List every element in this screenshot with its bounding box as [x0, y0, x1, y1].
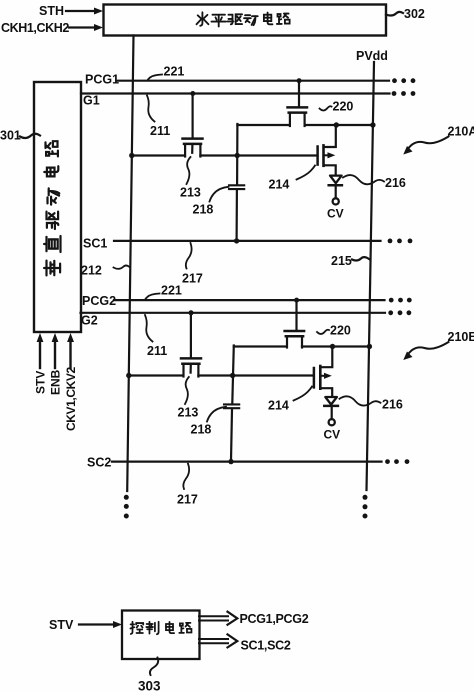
svg-text:215: 215 [331, 254, 352, 268]
label 垂直驱动电路 in box 301 (rotated) [44, 141, 60, 275]
svg-text:220: 220 [330, 324, 351, 338]
wire from T220 source down through node to capacitor C218 (cell 1) [236, 124, 238, 184]
diode 216 light emitting element (cell 2) [324, 397, 338, 419]
wire data line 212 vertical from box 302 [127, 36, 133, 492]
node STV label (bottom) [49, 618, 74, 632]
wire ENB arrow into box 301 [52, 333, 59, 368]
label 301 with leader [0, 129, 40, 143]
svg-text:STV: STV [49, 618, 74, 632]
label 215 with leader to PVdd line [331, 254, 369, 268]
svg-text:SC2: SC2 [87, 456, 111, 470]
svg-text:213: 213 [178, 406, 199, 420]
svg-text:303: 303 [138, 679, 161, 692]
label 216 with leader to diode (cell 2) [340, 396, 403, 411]
node CKV1,CKV2 label (rotated) [64, 367, 78, 431]
svg-text:CV: CV [324, 428, 341, 442]
node CV label (cell 1) [327, 207, 344, 221]
node CKH1,CKH2 input label [1, 21, 69, 35]
svg-text:SC1,SC2: SC1,SC2 [241, 639, 291, 653]
svg-text:PCG1,PCG2: PCG1,PCG2 [240, 612, 309, 626]
block 302 horizontal drive circuit box [104, 5, 387, 36]
svg-text:214: 214 [269, 178, 290, 192]
label 303 with leader [138, 658, 161, 692]
wire bus arrow SC1,SC2 out of control box [199, 634, 237, 647]
wire bus arrow PCG1,PCG2 out of control box [199, 612, 237, 625]
node junction dot drain T214 on PVdd feed 2 [330, 344, 335, 349]
transistor 220 (cell 1) [288, 82, 308, 127]
svg-text:217: 217 [177, 493, 198, 507]
node CV label (cell 2) [324, 428, 341, 442]
svg-text:218: 218 [191, 423, 212, 437]
node CV terminal circle (cell 2) [329, 419, 335, 425]
wire STV arrow into control box [79, 621, 122, 628]
svg-text:STH: STH [39, 4, 64, 18]
node SC1 label [83, 237, 107, 251]
wire CKH1,CKH2 arrow into horizontal driver [69, 24, 103, 31]
node PCG1,PCG2 label [240, 612, 309, 626]
node junction dot drain T214 on PVdd feed 1 [334, 122, 339, 127]
node STV label (rotated) [34, 371, 48, 394]
transistor 214 (cell 2) [314, 348, 332, 397]
label 211 with leader to G1 (cell 1) [147, 96, 170, 139]
svg-text:212: 212 [81, 264, 102, 278]
node junction dot gate of Q213 on G1 [190, 91, 195, 96]
label 214 with leader to gate (cell 1) [269, 166, 316, 192]
svg-text:218: 218 [193, 203, 214, 217]
label 217 with leader to SC2 (cell 2) [177, 464, 198, 507]
label 214 with leader to gate (cell 2) [268, 387, 312, 413]
transistor 220 (cell 2) [285, 301, 305, 348]
label 221 with leader to PCG1 (cell 1) [148, 65, 185, 81]
block 301 vertical drive circuit box [34, 82, 81, 332]
wire PVdd power line 215 [367, 62, 375, 490]
node G2 label [81, 314, 98, 328]
wire PVdd feed row 1 [237, 124, 373, 126]
node junction dot data line / storage wire 1 [129, 153, 134, 158]
svg-text:214: 214 [268, 399, 289, 413]
svg-text:211: 211 [147, 344, 167, 358]
label 213 with leader (cell 2) [178, 365, 199, 420]
node junction dot storage wire / capacitor branch 1 [235, 153, 240, 158]
label 211 with leader to G2 (cell 2) [145, 315, 167, 358]
svg-text:220: 220 [333, 100, 354, 114]
node SC2 label [87, 456, 111, 470]
wire storage node row 2 [129, 374, 314, 376]
node junction dot PVdd feed 1 on PVdd line [370, 122, 375, 127]
node G1 label [83, 94, 100, 108]
wire STV arrow into box 301 [37, 333, 44, 368]
transistor 213 (cell 1) [183, 95, 203, 157]
node junction dot storage wire / capacitor branch 2 [230, 373, 235, 378]
svg-text:301: 301 [0, 129, 21, 143]
node ellipsis PCG1 [392, 78, 415, 83]
label 213 with leader (cell 1) [180, 145, 201, 200]
wire storage node row 1 [132, 154, 318, 156]
node junction dot gate of T220 on PCG1 [297, 78, 302, 83]
label 218 with leader to C218 (cell 2) [191, 407, 227, 437]
node ENB label (rotated) [49, 369, 63, 395]
svg-text:ENB: ENB [49, 369, 63, 395]
svg-text:PCG1: PCG1 [85, 73, 119, 87]
svg-text:213: 213 [180, 186, 201, 200]
wire PCG2 row line [114, 299, 385, 301]
node PCG2 label [82, 294, 116, 308]
node ellipsis below data line [124, 495, 129, 519]
svg-text:CV: CV [327, 207, 344, 221]
wire CKV1,CKV2 arrow into box 301 [67, 333, 74, 368]
node PVdd label [356, 49, 388, 63]
label 302 with leader [386, 7, 425, 21]
svg-text:CKV1,CKV2: CKV1,CKV2 [64, 367, 78, 431]
node junction dot C218 on SC2 [228, 459, 233, 464]
label 控制电路 in box 303 [130, 622, 191, 634]
wire G1 row line [81, 92, 390, 94]
label 220 with leader (cell 1) [320, 100, 354, 114]
node ellipsis SC1 [388, 239, 413, 244]
svg-text:PVdd: PVdd [356, 49, 388, 63]
label 218 with leader to C218 (cell 1) [193, 187, 229, 217]
wire SC2 row line [112, 461, 382, 463]
node junction dot PVdd feed 2 on PVdd line [367, 344, 372, 349]
svg-text:G2: G2 [81, 314, 98, 328]
node PCG1 label [85, 73, 119, 87]
svg-text:216: 216 [385, 176, 406, 190]
node ellipsis PCG2 [389, 298, 412, 303]
svg-text:211: 211 [150, 124, 170, 138]
capacitor C218 (cell 1) [229, 185, 244, 240]
node STH input label [39, 4, 64, 18]
node CV terminal circle (cell 1) [333, 198, 339, 204]
svg-text:G1: G1 [83, 94, 100, 108]
node junction dot gate of Q213 on G2 [189, 310, 194, 315]
node SC1,SC2 label [241, 639, 291, 653]
svg-text:302: 302 [404, 7, 425, 21]
wire SC1 row line [114, 240, 381, 242]
transistor 214 (cell 1) [318, 126, 336, 175]
svg-text:210B: 210B [448, 330, 474, 344]
diode 216 light emitting element (cell 1) [329, 176, 342, 199]
label 水平驱动电路 in box 302 [197, 12, 290, 26]
label 210A with curved arrow [403, 125, 474, 155]
label 217 with leader to SC1 (cell 1) [182, 243, 203, 286]
node junction dot gate of T220 on PCG2 [294, 298, 299, 303]
node ellipsis below PVdd line [363, 495, 368, 519]
label 220 with leader (cell 2) [317, 324, 351, 338]
label 221 with leader to PCG2 (cell 2) [145, 284, 182, 300]
node junction dot data line / storage wire 2 [126, 373, 131, 378]
svg-text:216: 216 [382, 398, 403, 412]
svg-text:STV: STV [34, 371, 48, 394]
svg-text:210A: 210A [448, 125, 474, 139]
label 212 with leader to data line [81, 264, 130, 278]
svg-text:217: 217 [182, 272, 203, 286]
block 303 control circuit box [122, 611, 200, 660]
node ellipsis G2 [388, 310, 411, 315]
label 210B with curved arrow [403, 330, 474, 360]
wire G2 row line [81, 312, 386, 314]
svg-text:SC1: SC1 [83, 237, 107, 251]
node junction dot C218 on SC1 [234, 238, 239, 243]
svg-text:CKH1,CKH2: CKH1,CKH2 [1, 21, 69, 35]
wire PVdd feed row 2 [234, 345, 370, 347]
wire PCG1 row line [117, 80, 390, 82]
wire STH arrow into horizontal driver [66, 8, 103, 15]
label 216 with leader to diode (cell 1) [343, 175, 406, 190]
capacitor C218 (cell 2) [224, 404, 239, 460]
node ellipsis G1 [392, 91, 416, 96]
svg-text:PCG2: PCG2 [82, 294, 116, 308]
svg-text:221: 221 [161, 284, 182, 298]
transistor 213 (cell 2) [181, 314, 201, 377]
node ellipsis SC2 [385, 459, 409, 464]
svg-text:221: 221 [164, 65, 185, 79]
wire from T220 source down through node to capacitor C218 (cell 2) [232, 346, 234, 404]
